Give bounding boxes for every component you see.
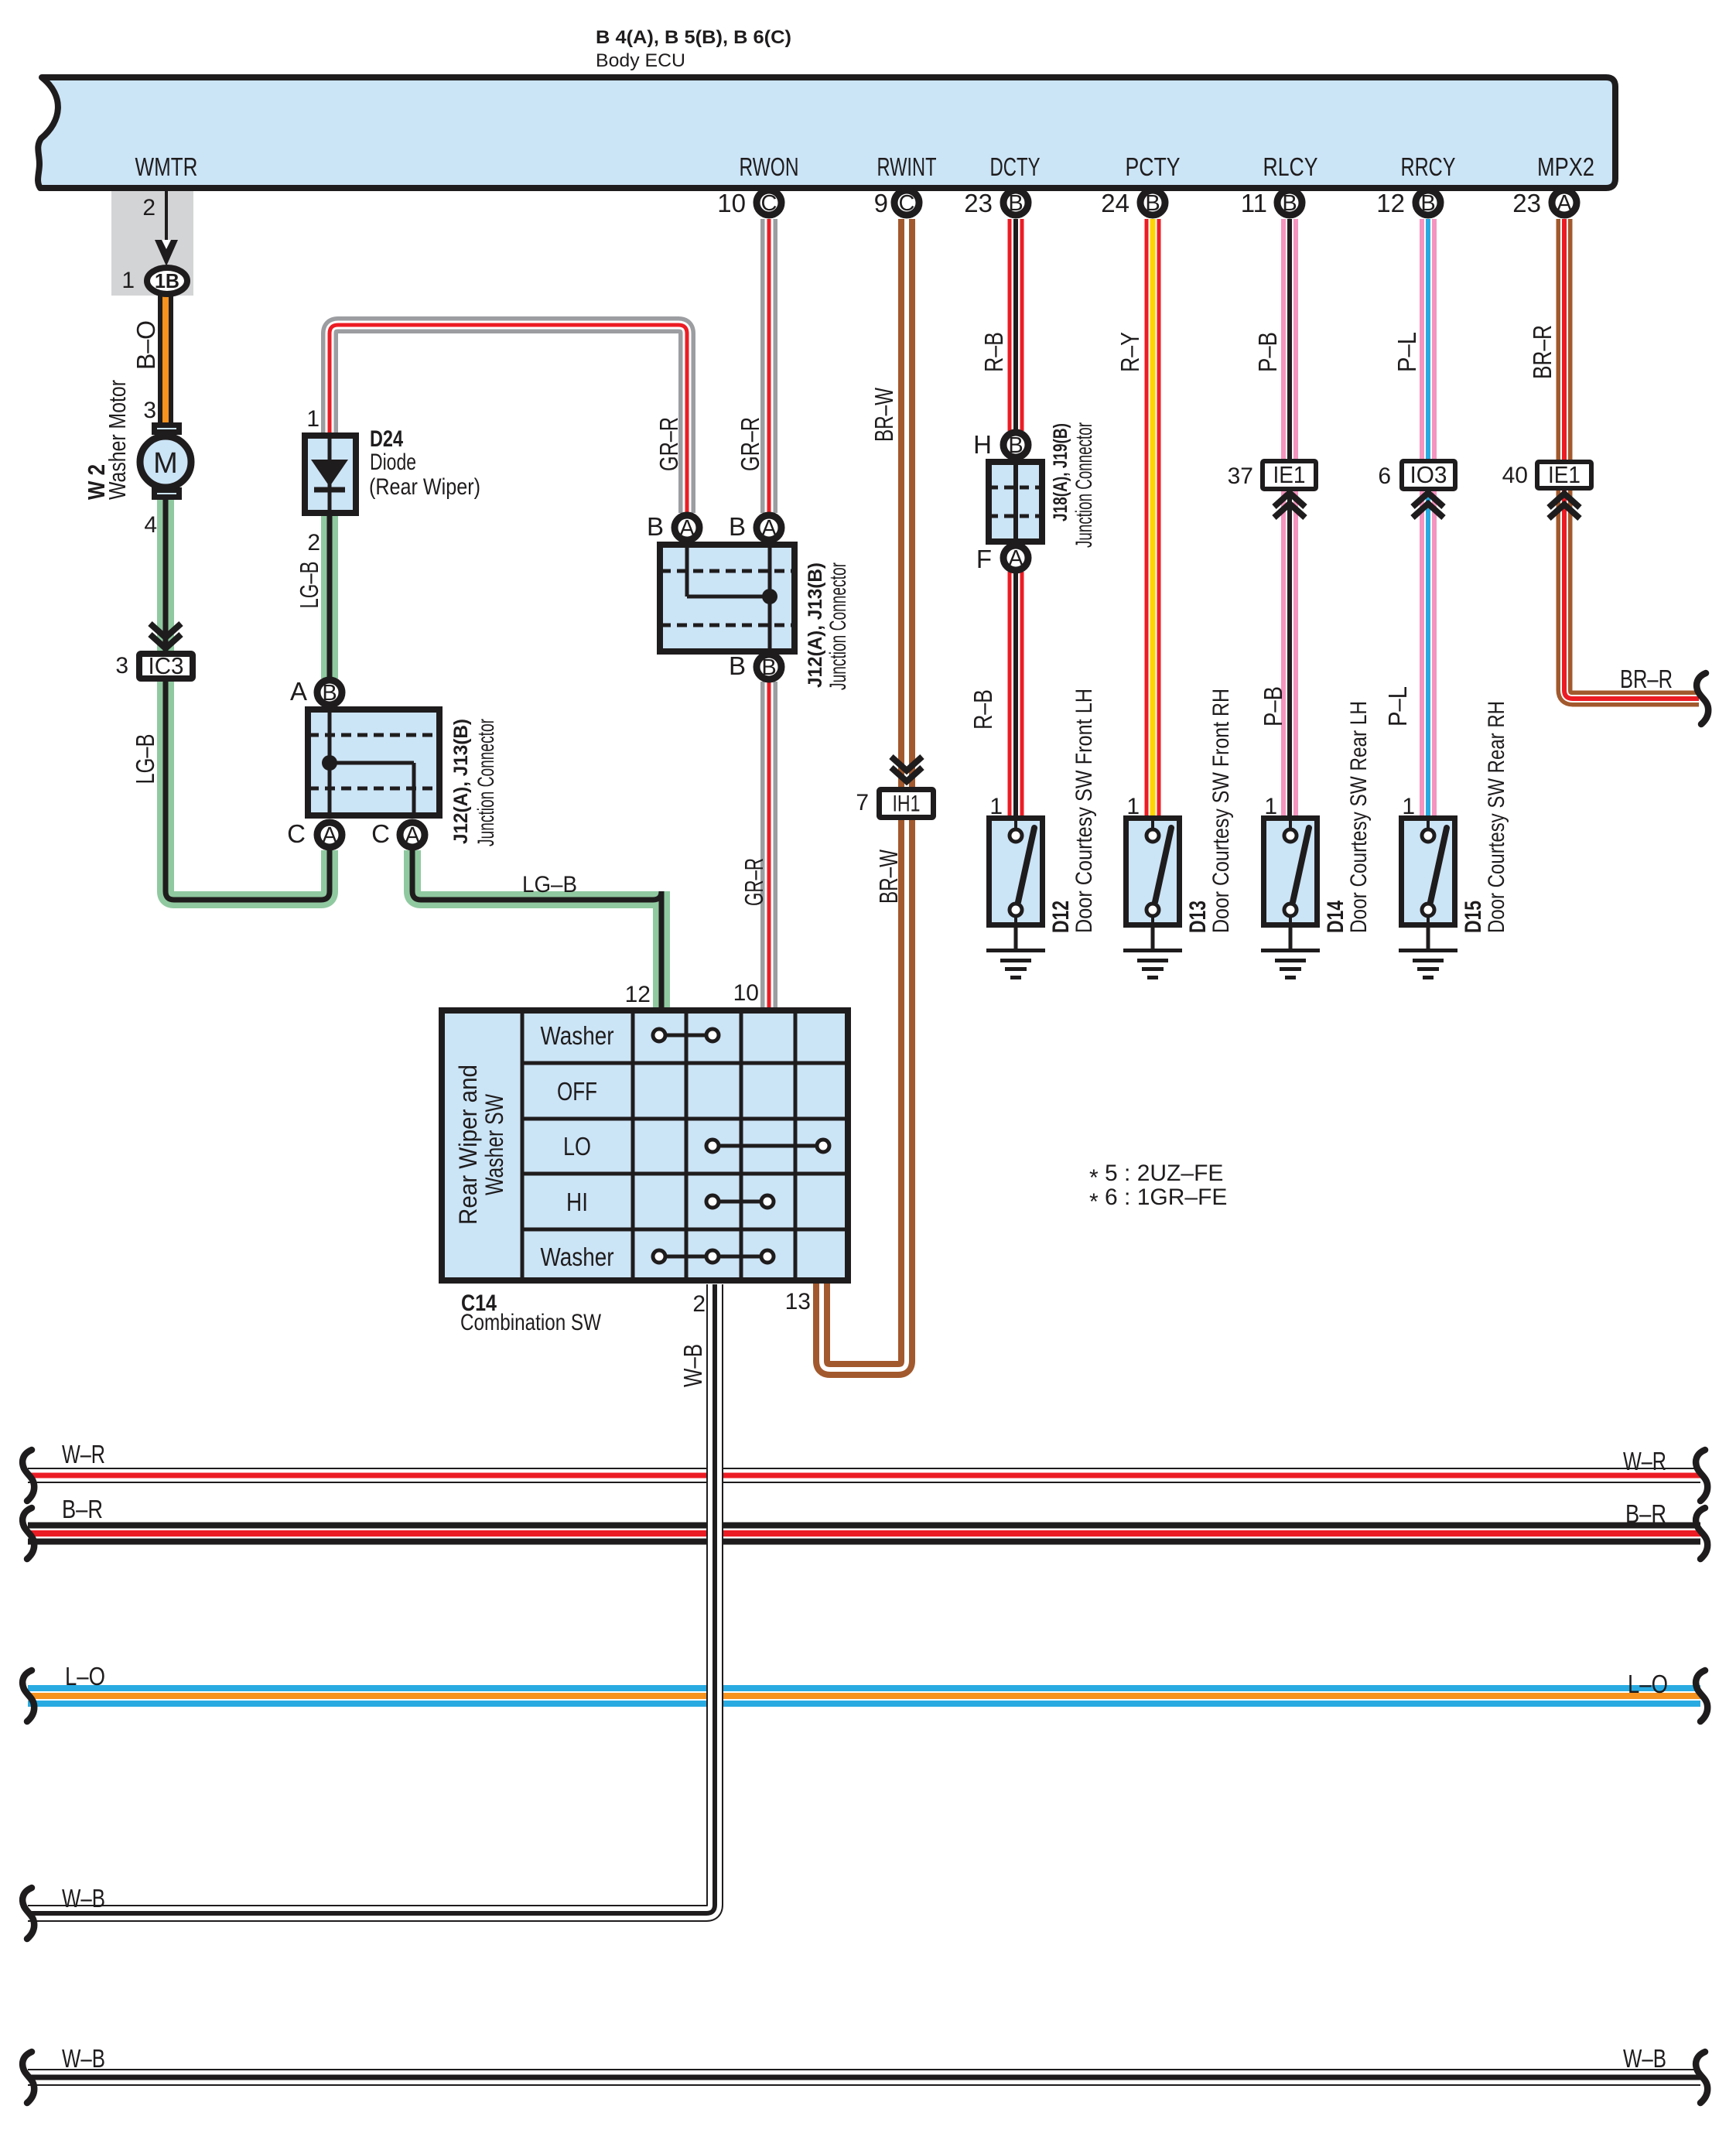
svg-text:A: A [679, 516, 695, 541]
svg-text:A: A [761, 516, 777, 541]
svg-text:C: C [287, 819, 306, 848]
svg-text:40: 40 [1502, 463, 1528, 488]
svg-text:D24: D24 [370, 426, 403, 452]
svg-text:IO3: IO3 [1410, 461, 1447, 488]
svg-text:OFF: OFF [557, 1077, 597, 1106]
svg-text:A: A [405, 823, 420, 848]
svg-text:C: C [761, 191, 777, 216]
svg-text:D14: D14 [1323, 901, 1348, 933]
svg-text:Door Courtesy SW Front LH: Door Courtesy SW Front LH [1071, 689, 1097, 933]
svg-text:6: 6 [1378, 463, 1391, 489]
svg-text:WMTR: WMTR [135, 152, 198, 181]
svg-text:GR–R: GR–R [654, 417, 683, 471]
svg-text:BR–R: BR–R [1528, 325, 1557, 379]
svg-text:W–B: W–B [1623, 2044, 1666, 2073]
svg-text:H: H [973, 430, 992, 459]
svg-text:2: 2 [692, 1291, 706, 1317]
svg-text:12: 12 [1376, 189, 1405, 217]
svg-text:9: 9 [874, 189, 888, 217]
svg-text:Junction Connector: Junction Connector [473, 719, 499, 846]
svg-text:B: B [322, 681, 337, 706]
svg-text:IE1: IE1 [1548, 461, 1581, 488]
svg-text:3: 3 [115, 653, 128, 679]
svg-text:LG–B: LG–B [522, 872, 577, 897]
svg-text:D12: D12 [1048, 901, 1074, 933]
svg-text:P–B: P–B [1253, 332, 1282, 372]
svg-text:BR–R: BR–R [1620, 665, 1673, 693]
svg-text:D15: D15 [1461, 901, 1486, 933]
svg-text:LO: LO [563, 1132, 591, 1161]
svg-text:RWON: RWON [740, 152, 799, 181]
svg-text:HI: HI [566, 1188, 588, 1216]
svg-text:IC3: IC3 [149, 652, 184, 679]
svg-text:GR–R: GR–R [740, 858, 768, 906]
svg-text:R–B: R–B [969, 689, 997, 730]
svg-text:Junction Connector: Junction Connector [1071, 422, 1097, 548]
svg-text:1: 1 [1402, 794, 1415, 819]
svg-text:37: 37 [1228, 463, 1253, 489]
svg-text:B–R: B–R [1625, 1499, 1666, 1528]
svg-text:B: B [729, 651, 746, 680]
svg-text:24: 24 [1101, 189, 1129, 217]
svg-text:Washer: Washer [541, 1021, 614, 1050]
svg-text:W–R: W–R [62, 1440, 105, 1468]
svg-text:W–B: W–B [62, 1884, 105, 1913]
svg-text:23: 23 [964, 189, 993, 217]
svg-text:BR–W: BR–W [874, 849, 903, 904]
svg-text:A: A [1008, 546, 1023, 571]
svg-text:2: 2 [307, 530, 320, 556]
svg-text:IH1: IH1 [893, 791, 921, 817]
svg-text:B: B [1420, 191, 1435, 216]
svg-text:RRCY: RRCY [1401, 152, 1456, 181]
svg-text:W–B: W–B [678, 1344, 707, 1387]
svg-text:B: B [1282, 191, 1297, 216]
svg-text:L–O: L–O [1628, 1670, 1668, 1698]
svg-text:B: B [729, 512, 746, 541]
svg-text:DCTY: DCTY [990, 152, 1041, 181]
svg-text:C: C [899, 191, 915, 216]
svg-text:C: C [371, 819, 390, 848]
svg-text:RWINT: RWINT [877, 152, 937, 181]
svg-text:A: A [290, 677, 307, 706]
svg-text:BR–W: BR–W [870, 387, 898, 442]
svg-text:Diode: Diode [370, 450, 416, 475]
svg-text:B: B [1145, 191, 1160, 216]
svg-text:Washer: Washer [541, 1243, 614, 1271]
svg-text:1: 1 [989, 794, 1003, 819]
svg-text:F: F [976, 545, 992, 573]
svg-text:L–O: L–O [65, 1662, 105, 1690]
svg-text:B: B [761, 655, 776, 680]
svg-text:LG–B: LG–B [295, 562, 323, 609]
svg-text:J12(A), J13(B): J12(A), J13(B) [450, 719, 472, 844]
svg-text:GR–R: GR–R [736, 417, 764, 471]
svg-text:1: 1 [1126, 794, 1140, 819]
svg-text:Door Courtesy SW Rear LH: Door Courtesy SW Rear LH [1346, 701, 1372, 933]
svg-text:12: 12 [625, 982, 651, 1007]
svg-text:11: 11 [1241, 189, 1267, 217]
svg-text:Door Courtesy SW Rear RH: Door Courtesy SW Rear RH [1484, 701, 1509, 933]
svg-text:1: 1 [121, 268, 135, 293]
svg-text:B: B [647, 512, 664, 541]
svg-text:B: B [1008, 433, 1023, 458]
svg-text:W–R: W–R [1623, 1447, 1666, 1475]
svg-text:RLCY: RLCY [1263, 152, 1318, 181]
svg-text:Body ECU: Body ECU [596, 50, 685, 71]
svg-text:J18(A), J19(B): J18(A), J19(B) [1050, 423, 1071, 521]
svg-text:R–B: R–B [979, 332, 1008, 372]
svg-text:4: 4 [144, 512, 157, 538]
svg-text:Washer Motor: Washer Motor [104, 380, 131, 500]
svg-text:J12(A), J13(B): J12(A), J13(B) [805, 562, 826, 688]
svg-text:B: B [1008, 191, 1023, 216]
svg-text:B–O: B–O [132, 320, 160, 370]
svg-text:Door Courtesy SW Front RH: Door Courtesy SW Front RH [1208, 689, 1234, 933]
svg-text:P–L: P–L [1393, 332, 1421, 372]
svg-text:Rear Wiper and: Rear Wiper and [454, 1065, 482, 1225]
svg-text:1: 1 [1264, 794, 1277, 819]
svg-text:P–L: P–L [1383, 686, 1412, 726]
svg-text:A: A [1557, 191, 1572, 216]
svg-text:1: 1 [306, 406, 320, 432]
svg-text:Combination SW: Combination SW [460, 1310, 602, 1335]
svg-text:1B: 1B [155, 269, 179, 292]
svg-text:(Rear Wiper): (Rear Wiper) [369, 474, 480, 500]
svg-text:B 4(A), B 5(B), B 6(C): B 4(A), B 5(B), B 6(C) [596, 27, 791, 48]
svg-text:IE1: IE1 [1273, 461, 1306, 488]
svg-text:Junction Connector: Junction Connector [825, 562, 851, 690]
svg-text:PCTY: PCTY [1126, 152, 1181, 181]
svg-text:10: 10 [717, 189, 746, 217]
svg-text:Washer SW: Washer SW [480, 1093, 508, 1195]
svg-text:3: 3 [143, 398, 156, 423]
svg-text:MPX2: MPX2 [1537, 152, 1594, 181]
svg-text:7: 7 [856, 790, 869, 815]
svg-text:10: 10 [733, 980, 759, 1006]
svg-text:13: 13 [785, 1289, 811, 1314]
svg-text:2: 2 [142, 195, 155, 220]
svg-text:LG–B: LG–B [131, 734, 159, 785]
svg-text:D13: D13 [1185, 901, 1211, 933]
svg-text:W–B: W–B [62, 2044, 105, 2073]
svg-text:A: A [322, 823, 337, 848]
svg-text:P–B: P–B [1259, 686, 1287, 726]
svg-text:23: 23 [1512, 189, 1541, 217]
svg-text:R–Y: R–Y [1116, 332, 1144, 372]
svg-text:M: M [153, 447, 178, 480]
svg-text:B–R: B–R [62, 1495, 103, 1523]
